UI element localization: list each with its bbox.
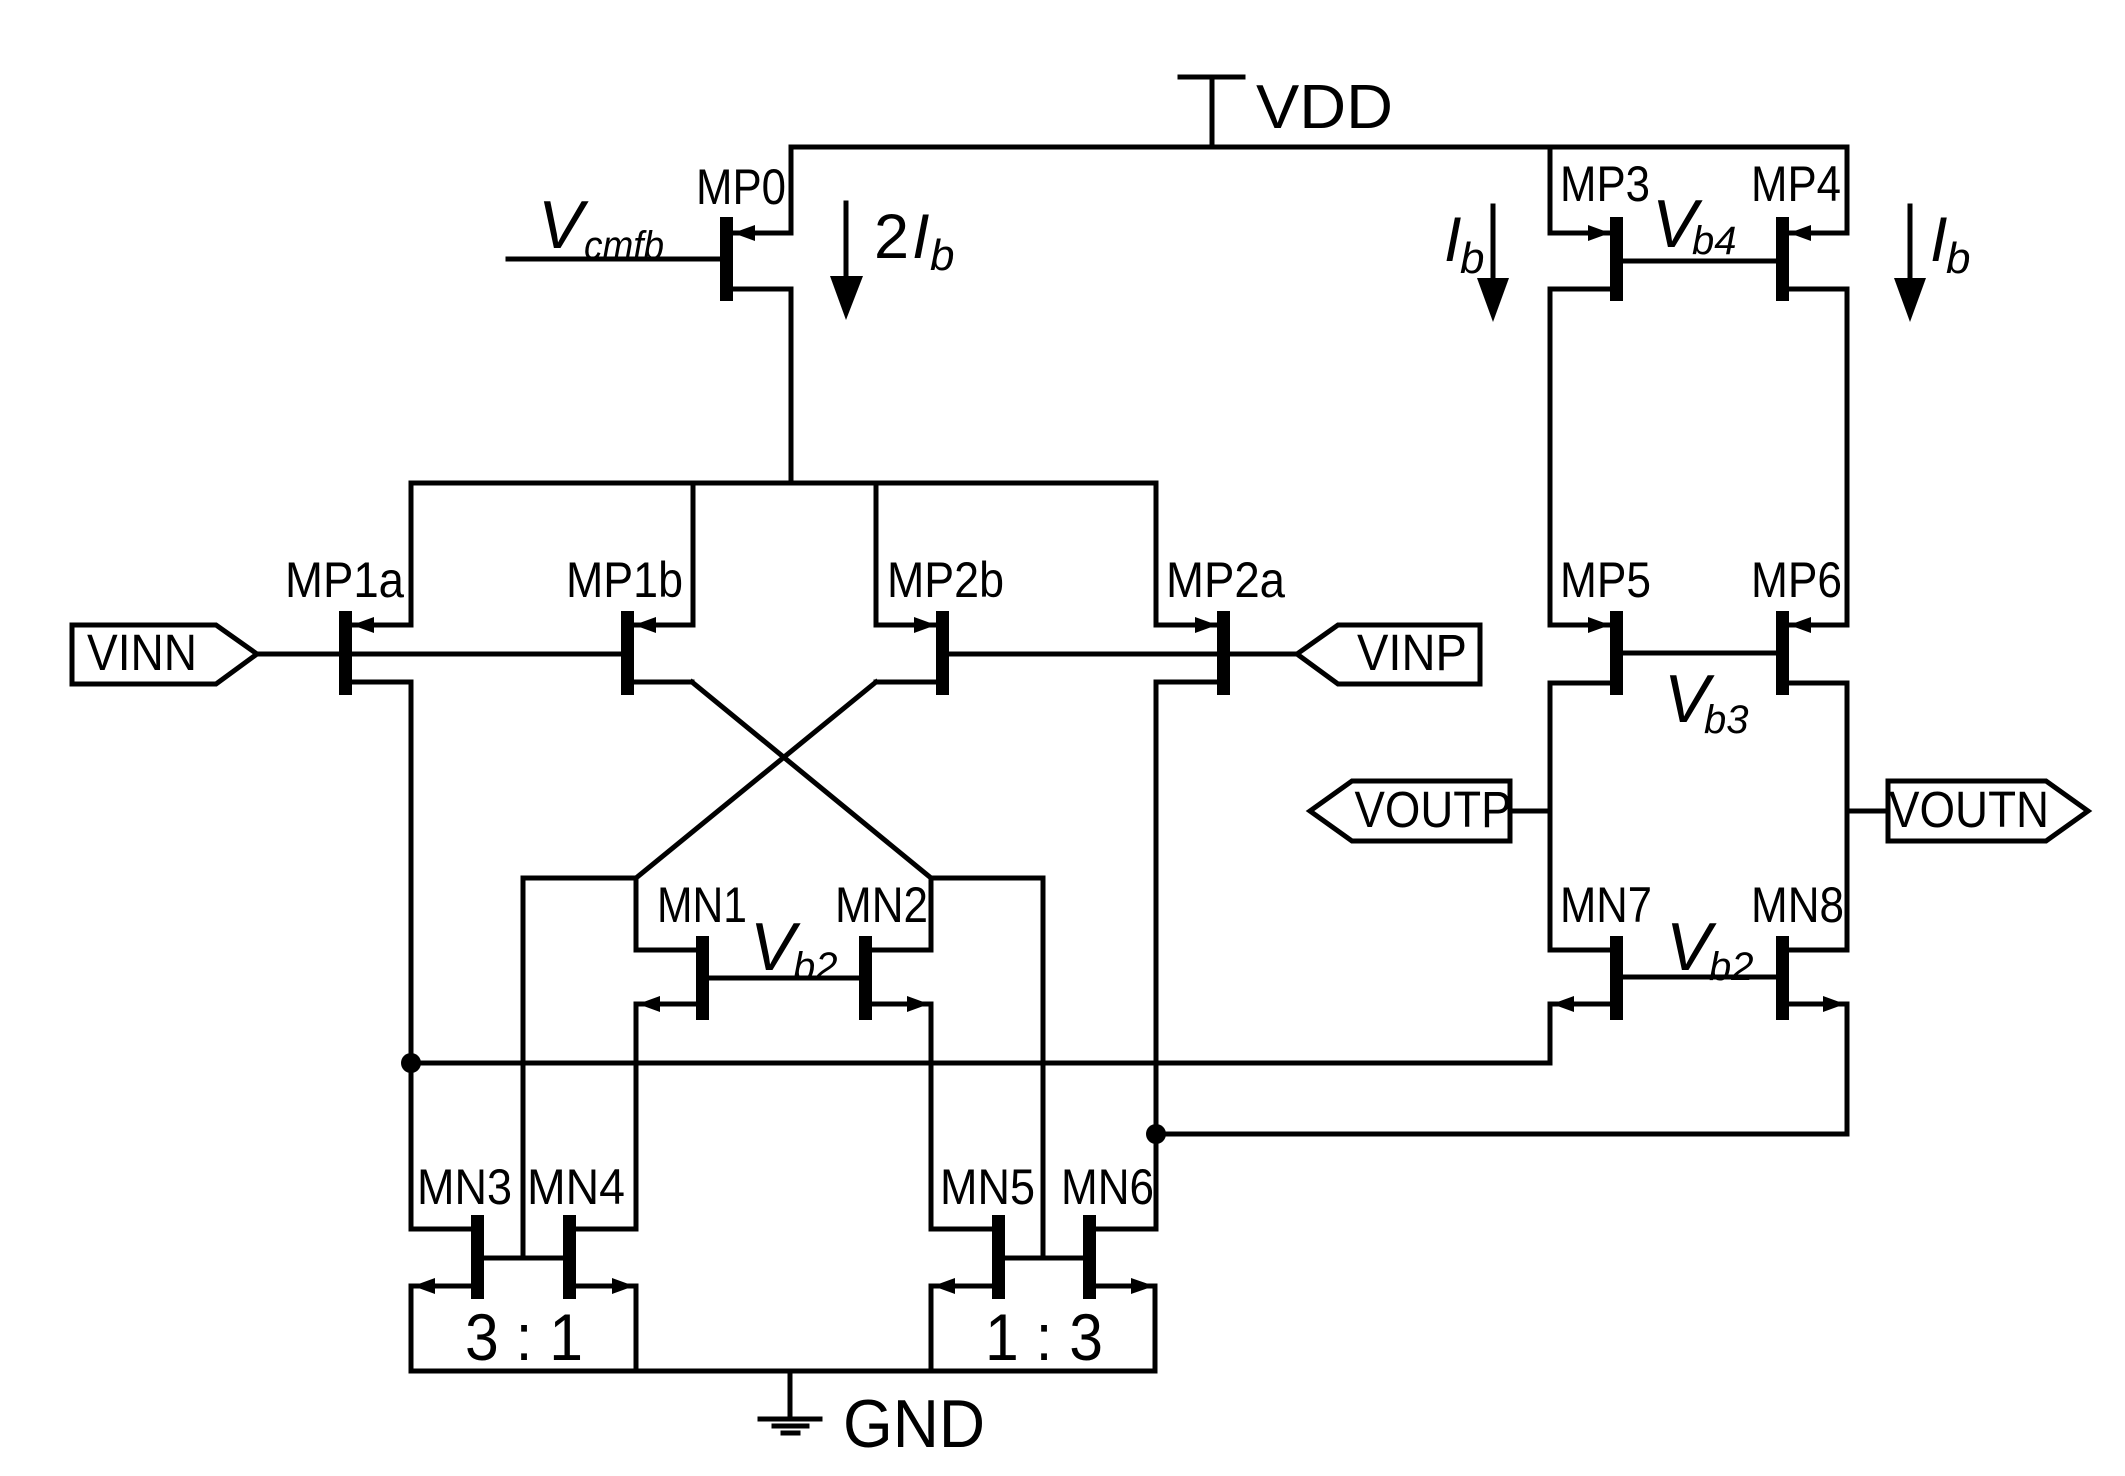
- svg-text:MN2: MN2: [835, 877, 928, 933]
- transistor MP2b: [876, 483, 949, 695]
- label Ib left: [1444, 205, 1484, 283]
- transistor MN6: [1083, 1215, 1156, 1299]
- label Vcmfb: [538, 187, 664, 268]
- svg-text:b3: b3: [1704, 698, 1749, 742]
- wire MP6 drain to MN8 drain (VOUTN node): [1845, 683, 1850, 950]
- svg-text:2: 2: [874, 202, 909, 272]
- net Vb2 gate bus MN1 MN2: [709, 976, 859, 981]
- svg-text:I: I: [912, 202, 930, 272]
- current arrow Ib right: [1894, 206, 1926, 322]
- net MN2 drain to MN5 MN6 gates: [931, 878, 1083, 1258]
- svg-text:cmfb: cmfb: [584, 224, 664, 268]
- port VOUTP: [1310, 781, 1550, 841]
- svg-text:MP1b: MP1b: [566, 552, 683, 608]
- svg-text:MN8: MN8: [1751, 877, 1844, 933]
- net MN5 MN6 gate bus: [1005, 1256, 1083, 1261]
- svg-text:MN6: MN6: [1061, 1159, 1154, 1215]
- transistor MP3: [1550, 147, 1623, 625]
- mirror ratio box 1:3: [931, 1286, 1155, 1371]
- transistor MP5: [1550, 611, 1623, 695]
- label Vb2 right: [1666, 909, 1754, 989]
- svg-text:I: I: [1930, 205, 1948, 275]
- transistor MP1b: [621, 483, 693, 695]
- svg-text:MN4: MN4: [527, 1159, 625, 1215]
- junction dot right: [1146, 1124, 1166, 1144]
- net Vcmfb: [508, 257, 720, 262]
- wire MP5 drain to MN7 drain (VOUTP node): [1548, 683, 1553, 950]
- port VINP: [1297, 624, 1480, 684]
- net Vb4 gate bus: [1623, 259, 1776, 264]
- transistor MP1a: [339, 483, 411, 695]
- svg-text:b: b: [930, 231, 954, 280]
- port VINN: [72, 624, 257, 684]
- net MN3 MN4 gate bus: [484, 1256, 563, 1261]
- transistor MP0: [720, 147, 791, 483]
- svg-text:MP4: MP4: [1751, 156, 1841, 212]
- svg-text:MP1a: MP1a: [285, 552, 404, 608]
- current arrow Ib left: [1477, 206, 1509, 322]
- svg-text:b: b: [1460, 234, 1484, 283]
- svg-text:VINP: VINP: [1357, 624, 1467, 681]
- transistor MN3: [411, 1215, 484, 1299]
- transistor MN8: [1776, 936, 1847, 1134]
- mirror ratio box 3:1: [411, 1286, 636, 1371]
- svg-text:MP2b: MP2b: [887, 552, 1004, 608]
- net Vb3 gate bus: [1623, 651, 1776, 656]
- svg-text:GND: GND: [843, 1386, 985, 1462]
- transistor MP6: [1776, 611, 1847, 695]
- svg-text:MN5: MN5: [940, 1159, 1035, 1215]
- svg-text:MP6: MP6: [1751, 552, 1842, 608]
- svg-text:b2: b2: [793, 945, 838, 989]
- junction dot left: [401, 1053, 421, 1073]
- svg-text:VDD: VDD: [1256, 73, 1393, 142]
- transistor MN2: [859, 878, 931, 1229]
- label Vb4: [1652, 186, 1737, 263]
- label 2Ib: [874, 202, 954, 280]
- svg-text:V: V: [538, 187, 589, 263]
- label Ib right: [1930, 205, 1970, 283]
- svg-text:I: I: [1444, 205, 1462, 275]
- net VINN gate wire: [257, 652, 621, 657]
- svg-text:MN1: MN1: [657, 877, 747, 933]
- svg-text:b2: b2: [1709, 945, 1754, 989]
- svg-text:VOUTN: VOUTN: [1889, 781, 2049, 838]
- transistor MP2a: [1156, 483, 1230, 695]
- wire ground bus: [636, 1369, 931, 1374]
- power rail VDD: [791, 145, 1847, 150]
- svg-text:VOUTP: VOUTP: [1355, 781, 1512, 838]
- svg-text:MP5: MP5: [1560, 552, 1651, 608]
- wire MP1b drain cross to MN2 drain: [692, 682, 931, 878]
- svg-text:3 : 1: 3 : 1: [465, 1300, 583, 1374]
- transistor MN5: [931, 1215, 1005, 1299]
- transistor MP4: [1776, 147, 1847, 625]
- net MN1 drain to MN3 MN4 gates: [484, 878, 636, 1258]
- label Vb3: [1664, 661, 1749, 742]
- svg-text:b4: b4: [1692, 219, 1737, 263]
- label Vb2 left: [750, 909, 838, 989]
- port VOUTN: [1847, 781, 2088, 841]
- svg-text:b: b: [1946, 234, 1970, 283]
- svg-text:MP3: MP3: [1560, 156, 1650, 212]
- svg-text:MN7: MN7: [1560, 877, 1652, 933]
- net VINP gate wire: [949, 652, 1297, 657]
- ground symbol: [760, 1371, 820, 1433]
- net Vb2 gate bus MN7 MN8: [1623, 975, 1776, 980]
- current arrow 2Ib: [830, 203, 863, 320]
- svg-text:VINN: VINN: [87, 624, 197, 681]
- wire tail node bus: [411, 481, 1156, 486]
- transistor MN4: [563, 1215, 636, 1299]
- svg-text:MP0: MP0: [696, 159, 786, 215]
- wire MP2b drain cross to MN1 drain: [636, 682, 876, 878]
- transistor MN7: [1550, 936, 1623, 1063]
- VDD symbol: [1180, 77, 1243, 147]
- wire class-AB left (MP1a drain to MN7 source): [411, 1061, 1550, 1066]
- wire MP1a drain column to MN3 drain: [409, 682, 414, 1229]
- svg-text:MP2a: MP2a: [1166, 552, 1285, 608]
- transistor MN1: [636, 878, 709, 1229]
- wire MP2a drain column to MN6 drain: [1154, 682, 1159, 1229]
- wire class-AB right (MP2a drain to MN8 source): [1156, 1132, 1847, 1137]
- svg-text:MN3: MN3: [417, 1159, 512, 1215]
- svg-text:1 : 3: 1 : 3: [985, 1300, 1103, 1374]
